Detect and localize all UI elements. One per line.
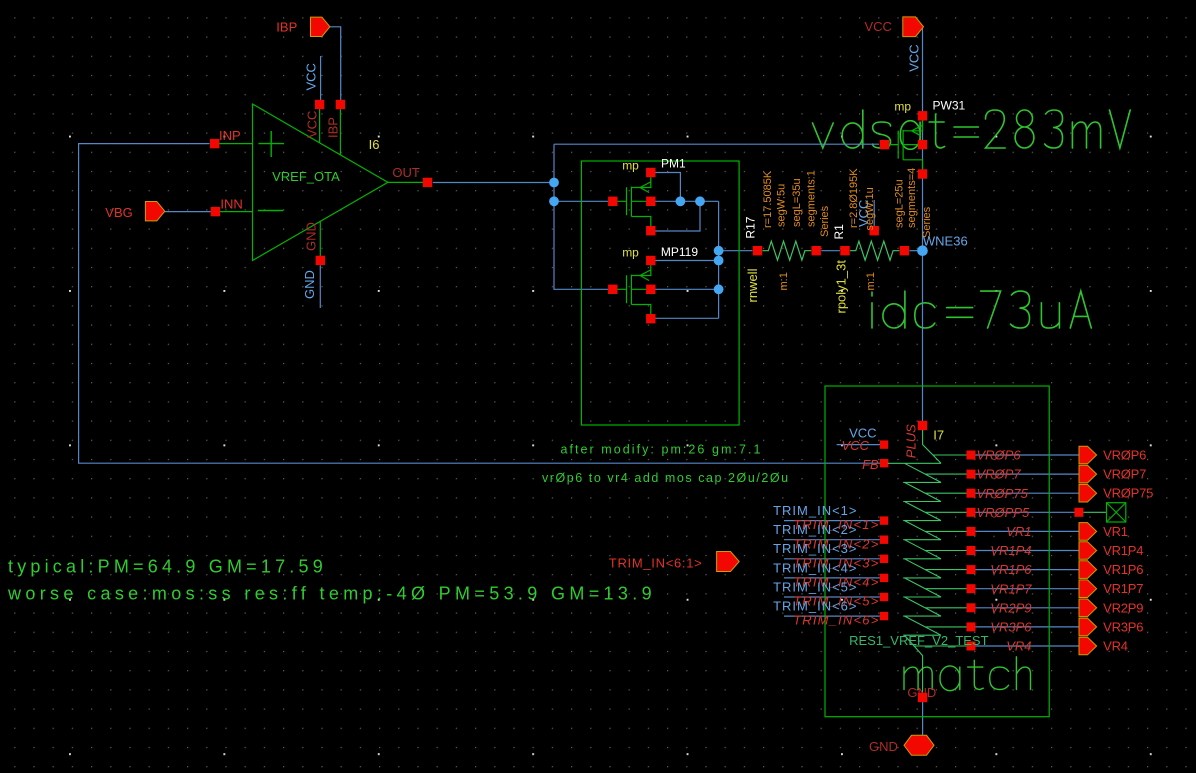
op-amp I6 VREF_OTA triangle bbox=[253, 104, 388, 261]
svg-text:OUT: OUT bbox=[392, 165, 420, 180]
transistor PW31 symbol bbox=[889, 121, 922, 170]
node junction MP119 bulk/drain bbox=[714, 284, 724, 294]
svg-text:after modify: pm:26 gm:7.1: after modify: pm:26 gm:7.1 bbox=[561, 443, 763, 457]
svg-text:PM1: PM1 bbox=[661, 157, 686, 171]
R17 right terminal bbox=[812, 246, 821, 255]
PW31 gate pin bbox=[880, 140, 889, 149]
PM1 drain pin bbox=[646, 226, 655, 235]
PM1 source pin bbox=[646, 168, 655, 177]
wire tap VR0P6 to pin bbox=[976, 454, 1080, 456]
wire VCC vertical through PW31 to PLUS bbox=[922, 28, 924, 422]
pin VR1P4 bbox=[1079, 542, 1097, 560]
svg-text:GND: GND bbox=[303, 222, 318, 251]
noconn symbol bbox=[1084, 511, 1107, 513]
svg-text:VCC: VCC bbox=[907, 44, 922, 71]
svg-text:MP119: MP119 bbox=[661, 245, 698, 259]
svg-text:R1: R1 bbox=[832, 224, 846, 240]
svg-text:I7: I7 bbox=[933, 428, 944, 443]
svg-text:m:1: m:1 bbox=[778, 272, 790, 290]
svg-text:VRØPP5: VRØPP5 bbox=[977, 505, 1031, 520]
svg-text:mp: mp bbox=[894, 100, 911, 114]
pin TRIM_IN<6:1> bbox=[717, 552, 740, 572]
noconn terminal bbox=[1074, 508, 1083, 517]
svg-text:Series: Series bbox=[819, 205, 831, 237]
match pin TRIM_IN<3> bbox=[880, 555, 888, 563]
ladder tap 1 bbox=[967, 470, 976, 479]
MP119 bulk pin bbox=[646, 285, 655, 294]
wire tap VR3P6 to pin bbox=[976, 626, 1080, 628]
wire to PM1 gate bbox=[554, 200, 608, 202]
node junction PM1 source/bulk bbox=[676, 196, 686, 206]
svg-text:VR1P6: VR1P6 bbox=[1103, 562, 1143, 577]
svg-text:segments=4: segments=4 bbox=[906, 168, 918, 228]
svg-text:WNE36: WNE36 bbox=[923, 234, 968, 249]
wire node to R17 bbox=[719, 250, 753, 252]
pin VR2P9 bbox=[1079, 599, 1097, 617]
svg-text:PW31: PW31 bbox=[933, 99, 966, 113]
ladder tap 3 bbox=[967, 508, 976, 517]
op-amp plus input marker bbox=[259, 131, 285, 157]
ladder tap 0 bbox=[967, 451, 976, 460]
wire match GND to GND pin bbox=[922, 702, 924, 737]
svg-text:segW:1u: segW:1u bbox=[864, 187, 876, 230]
wire OUT vertical to MP119 gate bbox=[554, 144, 608, 289]
wire R1 to WNE36 bbox=[909, 250, 922, 252]
wire PM1 bulk to node bbox=[656, 200, 719, 202]
svg-text:FB: FB bbox=[862, 457, 879, 472]
wire INP feedback to FB bbox=[79, 144, 880, 464]
wire R17 to R1 bbox=[821, 250, 840, 252]
svg-text:VR1P7: VR1P7 bbox=[990, 581, 1032, 596]
svg-text:TRIM_IN<4>: TRIM_IN<4> bbox=[773, 560, 857, 575]
R17 left terminal bbox=[753, 246, 762, 255]
resistor R17 zigzag bbox=[763, 241, 812, 260]
op-amp INP stub bbox=[219, 143, 253, 145]
svg-text:r=17.5085K: r=17.5085K bbox=[762, 170, 774, 228]
wire MP119 drain bbox=[656, 317, 719, 319]
svg-text:VR2P9: VR2P9 bbox=[1103, 600, 1143, 615]
svg-text:VR2P9: VR2P9 bbox=[990, 600, 1031, 615]
wire IBP pin to op-amp IBP bbox=[330, 27, 341, 100]
node junction OUT bbox=[549, 178, 559, 188]
svg-text:VR4: VR4 bbox=[1006, 639, 1031, 654]
match pin TRIM_IN<2> bbox=[880, 536, 888, 544]
MP119 source pin bbox=[646, 256, 655, 265]
wire tap VR0P7 to pin bbox=[976, 473, 1080, 475]
pin VR0P7 bbox=[1079, 465, 1097, 483]
svg-text:VR1P4: VR1P4 bbox=[1103, 543, 1143, 558]
svg-text:rnwell: rnwell bbox=[745, 268, 760, 302]
ladder tap 8 bbox=[967, 603, 976, 612]
R1 right terminal bbox=[900, 246, 909, 255]
svg-text:PLUS: PLUS bbox=[903, 424, 918, 458]
svg-text:VR3P6: VR3P6 bbox=[1103, 619, 1143, 634]
match pin TRIM_IN<4> bbox=[880, 574, 888, 582]
ladder tap 4 bbox=[967, 527, 976, 536]
node junction PM1 gate row bbox=[549, 196, 559, 206]
match pin TRIM_IN<6> bbox=[880, 612, 888, 620]
match pin PLUS bbox=[918, 421, 927, 430]
svg-text:segL=25u: segL=25u bbox=[893, 179, 905, 228]
wire R1 bulk VCC stub bbox=[873, 200, 875, 227]
svg-text:VR1P7: VR1P7 bbox=[1103, 581, 1143, 596]
op-amp INN stub bbox=[220, 211, 253, 213]
MP119 drain pin bbox=[646, 314, 655, 323]
wire match VCC stub bbox=[837, 444, 880, 446]
svg-text:segL=35u: segL=35u bbox=[791, 178, 803, 227]
wire GND stub op-amp bbox=[319, 265, 321, 308]
instance name match bbox=[904, 657, 1031, 691]
svg-text:vrØp6 to vr4 add mos cap 2Øu/2: vrØp6 to vr4 add mos cap 2Øu/2Øu bbox=[542, 471, 790, 485]
ladder tap 7 bbox=[967, 584, 976, 593]
svg-text:INN: INN bbox=[220, 196, 242, 211]
svg-text:VR4: VR4 bbox=[1103, 639, 1128, 654]
PM1 bulk pin bbox=[646, 197, 655, 206]
wire tap VR1P6 to pin bbox=[976, 569, 1080, 571]
svg-text:R17: R17 bbox=[744, 216, 758, 238]
ladder tap 10 bbox=[967, 642, 976, 651]
svg-text:TRIM_IN<2>: TRIM_IN<2> bbox=[773, 522, 857, 537]
match pin TRIM_IN<1> bbox=[880, 516, 888, 524]
svg-text:typical:PM=64.9 GM=17.59: typical:PM=64.9 GM=17.59 bbox=[8, 556, 327, 576]
pin VBG bbox=[145, 202, 164, 221]
wire to PW31 gate bbox=[554, 143, 879, 145]
wire PM1 source to node bbox=[656, 173, 681, 202]
wire tap VR1 to pin bbox=[976, 530, 1080, 532]
svg-text:VRØP75: VRØP75 bbox=[1103, 486, 1153, 501]
svg-text:VR1: VR1 bbox=[1006, 524, 1031, 539]
instance box match I7 bbox=[825, 386, 1049, 717]
PM1 gate pin bbox=[608, 197, 617, 206]
pin VR3P6 bbox=[1079, 618, 1097, 636]
pin VR0P6 bbox=[1079, 446, 1097, 464]
svg-text:VCC: VCC bbox=[303, 63, 318, 90]
svg-text:RES1_VREF_V2_TEST: RES1_VREF_V2_TEST bbox=[849, 633, 989, 648]
svg-text:VREF_OTA: VREF_OTA bbox=[272, 169, 340, 184]
svg-text:VRØP75: VRØP75 bbox=[977, 486, 1029, 501]
op-amp minus input marker bbox=[258, 210, 283, 212]
wire VBG to INN bbox=[165, 211, 211, 213]
match pin FB bbox=[880, 459, 888, 467]
op-amp pin IBP bbox=[336, 100, 345, 109]
annotation vdsat=283mV bbox=[813, 110, 1131, 149]
transistor PM1 symbol bbox=[618, 177, 651, 226]
op-amp GND stub bbox=[319, 222, 321, 257]
svg-text:VR3P6: VR3P6 bbox=[990, 620, 1032, 635]
wire MP119 source bbox=[656, 260, 719, 262]
R1 bulk terminal bbox=[870, 226, 879, 235]
svg-text:TRIM_IN<1>: TRIM_IN<1> bbox=[773, 503, 857, 518]
resistor R1 zigzag bbox=[850, 241, 899, 260]
node WNE36 junction bbox=[917, 245, 928, 256]
pin VR4 bbox=[1079, 637, 1097, 655]
op-amp pin VCC bbox=[315, 100, 324, 109]
svg-text:GND: GND bbox=[302, 270, 317, 299]
svg-text:VRØP7: VRØP7 bbox=[977, 467, 1022, 482]
wire VCC stub op-amp bbox=[320, 56, 322, 100]
svg-text:VRØP6: VRØP6 bbox=[977, 448, 1022, 463]
wire MP119 bulk bbox=[656, 288, 719, 290]
wire tap VR1P7 to pin bbox=[976, 588, 1080, 590]
svg-text:TRIM_IN<6:1>: TRIM_IN<6:1> bbox=[609, 556, 703, 571]
wire tap VR0P75 to pin bbox=[976, 492, 1080, 494]
match pin GND bbox=[918, 693, 927, 702]
resistor ladder in match box bbox=[888, 430, 967, 693]
pin VR0P75 bbox=[1079, 484, 1097, 502]
op-amp pin INN bbox=[211, 207, 220, 216]
node junction to R17 bbox=[714, 246, 724, 256]
svg-text:IBP: IBP bbox=[325, 117, 340, 138]
R1 left terminal bbox=[840, 246, 849, 255]
node junction PM1 drain bbox=[695, 196, 705, 206]
wire TRIM_IN<3> bbox=[784, 558, 880, 560]
svg-text:mp: mp bbox=[622, 246, 639, 260]
op-amp VCC stub bbox=[319, 109, 321, 143]
ladder tap 5 bbox=[967, 546, 976, 555]
svg-text:INP: INP bbox=[219, 128, 241, 143]
wire TRIM_IN<4> bbox=[784, 577, 880, 579]
wire PM1 drain to node bbox=[656, 201, 701, 231]
wire tap VR2P9 to pin bbox=[976, 607, 1080, 609]
wire TRIM_IN<5> bbox=[784, 596, 880, 598]
op-amp pin INP bbox=[210, 139, 219, 148]
svg-text:IBP: IBP bbox=[276, 20, 297, 35]
wire tap VR0P5 to noconn bbox=[976, 511, 1075, 513]
op-amp pin OUT bbox=[423, 178, 432, 187]
pin GND bbox=[904, 735, 934, 755]
svg-text:worse case:mos:ss res:ff temp:: worse case:mos:ss res:ff temp:-4Ø PM=53.… bbox=[7, 583, 656, 603]
annotation idc=73uA bbox=[872, 291, 1091, 328]
svg-text:TRIM_IN<6>: TRIM_IN<6> bbox=[793, 613, 879, 628]
svg-text:VRØP6: VRØP6 bbox=[1103, 448, 1146, 463]
pin VCC bbox=[903, 17, 924, 37]
PW31 source pin bbox=[918, 111, 927, 120]
svg-text:TRIM_IN<6>: TRIM_IN<6> bbox=[773, 599, 857, 614]
wire TRIM_IN<1> bbox=[784, 520, 880, 522]
svg-text:TRIM_IN<5>: TRIM_IN<5> bbox=[773, 579, 857, 594]
wire OUT bbox=[433, 182, 554, 184]
svg-text:VR1P4: VR1P4 bbox=[990, 543, 1031, 558]
PW31 bulk pin bbox=[918, 140, 927, 149]
pin VR1P7 bbox=[1079, 580, 1097, 598]
wire TRIM_IN<2> bbox=[784, 539, 880, 541]
svg-text:rpoly1_3t: rpoly1_3t bbox=[834, 260, 849, 314]
svg-text:VCC: VCC bbox=[865, 19, 892, 34]
svg-text:segments:1: segments:1 bbox=[806, 170, 818, 227]
wire node vertical bbox=[718, 201, 720, 318]
node junction MP119 source bbox=[714, 256, 724, 266]
wire tap VR4 to pin bbox=[976, 645, 1080, 647]
svg-text:VBG: VBG bbox=[105, 205, 132, 220]
svg-text:segW:5u: segW:5u bbox=[776, 184, 788, 227]
op-amp IBP stub bbox=[339, 109, 341, 155]
pin IBP bbox=[311, 17, 330, 36]
op-amp OUT stub bbox=[388, 181, 423, 183]
svg-text:VR1P6: VR1P6 bbox=[990, 562, 1032, 577]
svg-text:I6: I6 bbox=[369, 137, 380, 152]
transistor MP119 symbol bbox=[618, 265, 651, 314]
pin VR1P6 bbox=[1079, 561, 1097, 579]
svg-text:mp: mp bbox=[622, 159, 639, 173]
ladder tap 9 bbox=[967, 622, 976, 631]
svg-text:m:1: m:1 bbox=[865, 272, 877, 290]
op-amp pin GND bbox=[316, 256, 325, 265]
wire TRIM_IN<6> bbox=[784, 615, 880, 617]
match pin VCC bbox=[880, 440, 888, 448]
pin VR1 bbox=[1079, 523, 1097, 541]
MP119 gate pin bbox=[608, 285, 617, 294]
svg-text:VCC: VCC bbox=[842, 438, 870, 453]
svg-text:VCC: VCC bbox=[305, 111, 320, 138]
ladder tap 6 bbox=[967, 565, 976, 574]
svg-text:GND: GND bbox=[869, 739, 898, 754]
svg-text:VR1: VR1 bbox=[1103, 524, 1128, 539]
box around current mirror bbox=[581, 161, 739, 425]
match pin TRIM_IN<5> bbox=[880, 593, 888, 601]
ladder tap 2 bbox=[967, 489, 976, 498]
wire tap VR1P4 to pin bbox=[976, 550, 1080, 552]
PW31 drain pin bbox=[918, 169, 927, 178]
svg-text:TRIM_IN<3>: TRIM_IN<3> bbox=[773, 541, 857, 556]
svg-text:VRØP7: VRØP7 bbox=[1103, 467, 1146, 482]
